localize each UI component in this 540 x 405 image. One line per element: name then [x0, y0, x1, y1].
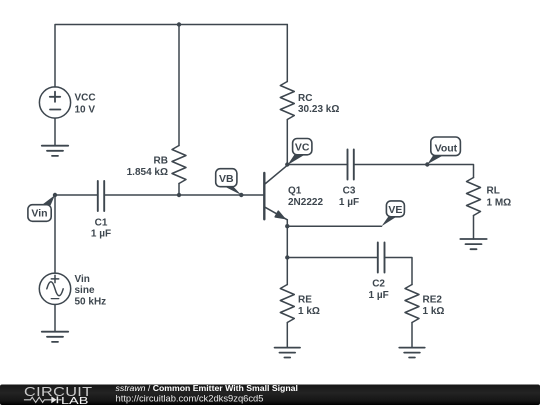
label VCC value — [75, 93, 96, 116]
wire C2 row left — [287, 257, 378, 259]
ground (RL) — [460, 239, 486, 249]
label C3 value — [339, 186, 359, 208]
label RE2 value — [423, 295, 445, 318]
wire RE2 to ground — [411, 323, 413, 348]
label RE value — [298, 295, 320, 318]
wire top rail — [55, 25, 287, 88]
svg-text:http://circuitlab.com/ck2dks9z: http://circuitlab.com/ck2dks9zq6cd5 — [116, 392, 264, 403]
svg-text:RB: RB — [154, 156, 168, 167]
junction dot emitter/VE — [285, 224, 289, 228]
ground (VCC) — [42, 146, 68, 156]
svg-text:1 MΩ: 1 MΩ — [487, 197, 512, 208]
svg-text:RL: RL — [487, 186, 500, 197]
svg-text:50 kHz: 50 kHz — [75, 296, 107, 307]
svg-text:Q1: Q1 — [288, 186, 302, 197]
wire base row right — [104, 194, 263, 196]
wire emitter column — [286, 220, 288, 285]
transistor Q1 — [264, 165, 287, 220]
capacitor C2 — [378, 243, 385, 273]
voltage source VCC — [39, 87, 70, 118]
svg-text:1 kΩ: 1 kΩ — [423, 306, 445, 317]
svg-text:RE: RE — [298, 295, 312, 306]
node VC dot — [285, 162, 289, 166]
wire base row left — [55, 194, 98, 196]
svg-text:Vout: Vout — [435, 142, 458, 154]
label C2 value — [368, 278, 388, 301]
svg-text:RC: RC — [298, 93, 312, 104]
node flag VC — [288, 139, 312, 166]
node flag VB — [216, 169, 242, 195]
node VB dot — [239, 193, 243, 197]
ground (RE2) — [399, 348, 424, 358]
resistor RE — [280, 285, 294, 323]
label Q1 value — [288, 186, 323, 208]
wire VCC to ground — [54, 118, 56, 146]
svg-text:1 µF: 1 µF — [339, 197, 359, 208]
node flag Vin — [28, 195, 55, 221]
label RL value — [487, 186, 512, 209]
svg-text:LAB: LAB — [61, 395, 88, 405]
label C1 value — [91, 217, 111, 239]
wire RB top drop — [178, 25, 180, 146]
svg-text:C1: C1 — [95, 217, 108, 228]
svg-text:sine: sine — [75, 285, 95, 296]
label Vin source value — [75, 274, 107, 307]
svg-text:RE2: RE2 — [423, 295, 443, 306]
resistor RL — [467, 178, 481, 216]
node Vin dot — [53, 193, 57, 197]
svg-text:C3: C3 — [343, 186, 356, 197]
node flag Vout — [427, 137, 460, 164]
capacitor C3 — [348, 150, 354, 180]
footer title text — [116, 383, 298, 403]
capacitor C1 — [98, 181, 104, 211]
svg-text:VCC: VCC — [75, 93, 96, 104]
svg-text:1.854 kΩ: 1.854 kΩ — [127, 167, 168, 178]
svg-text:Vin: Vin — [75, 274, 90, 285]
ground (RE) — [275, 348, 300, 358]
svg-text:1 µF: 1 µF — [91, 229, 111, 240]
label RB value — [127, 156, 168, 178]
svg-text:C2: C2 — [372, 278, 385, 289]
wire Vin node down to source — [54, 195, 56, 273]
svg-text:30.23 kΩ: 30.23 kΩ — [298, 104, 339, 115]
wire RL to ground — [473, 216, 475, 240]
wire RC top drop — [286, 25, 288, 82]
wire RC bottom — [286, 120, 288, 165]
svg-text:2N2222: 2N2222 — [288, 197, 323, 208]
label RC value — [298, 93, 339, 115]
wire C2 to RE2 — [385, 258, 413, 285]
wire RE to ground — [286, 323, 288, 348]
svg-text:VE: VE — [388, 204, 402, 216]
node flag VE — [382, 201, 405, 226]
resistor RC — [280, 82, 294, 120]
CircuitLab logo — [24, 386, 93, 405]
voltage source Vin (sine) — [39, 273, 70, 304]
ground (Vin) — [42, 332, 68, 342]
svg-text:10 V: 10 V — [75, 105, 96, 116]
wire collector row — [287, 164, 347, 166]
resistor RE2 — [405, 285, 419, 323]
wire VE stub — [287, 225, 381, 227]
svg-text:VC: VC — [295, 142, 310, 154]
junction dot emitter/C2 — [285, 255, 289, 259]
svg-text:Vin: Vin — [31, 208, 47, 220]
svg-text:1 kΩ: 1 kΩ — [298, 306, 320, 317]
junction dot RB bottom — [177, 193, 181, 197]
wire collector row to RL — [354, 165, 474, 178]
svg-text:VB: VB — [219, 173, 234, 185]
resistor RB — [172, 146, 186, 184]
wire RB bottom — [178, 184, 180, 196]
node Vout dot — [425, 162, 429, 166]
wire Vin source to ground — [54, 305, 56, 332]
svg-text:1 µF: 1 µF — [368, 290, 388, 301]
junction dot top rail / RB — [177, 22, 181, 26]
